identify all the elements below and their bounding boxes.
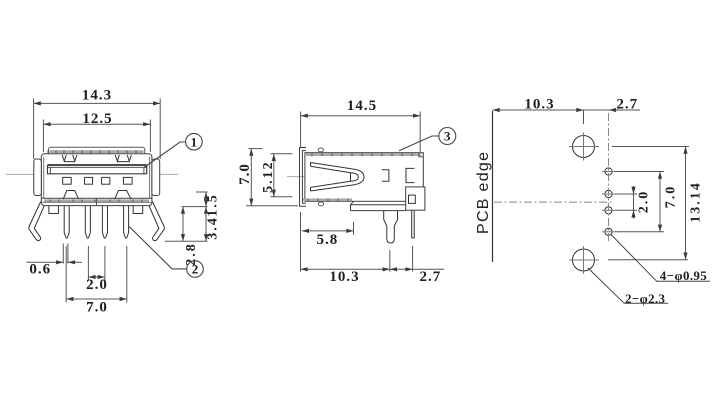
svg-text:2: 2: [192, 262, 199, 277]
svg-text:7.0: 7.0: [237, 163, 253, 185]
svg-text:5.8: 5.8: [317, 232, 339, 248]
svg-text:0.6: 0.6: [29, 262, 51, 278]
svg-text:10.3: 10.3: [329, 269, 359, 285]
svg-text:PCB edge: PCB edge: [475, 152, 492, 234]
svg-text:2.7: 2.7: [616, 97, 638, 113]
svg-text:1.5: 1.5: [206, 193, 221, 217]
svg-text:13.14: 13.14: [688, 181, 703, 223]
svg-text:5.12: 5.12: [261, 160, 276, 193]
svg-text:10.3: 10.3: [524, 97, 554, 113]
svg-text:14.3: 14.3: [82, 88, 112, 104]
svg-text:2.0: 2.0: [86, 277, 108, 293]
svg-text:4−φ0.95: 4−φ0.95: [660, 268, 708, 283]
svg-text:14.5: 14.5: [347, 98, 377, 114]
svg-text:7.0: 7.0: [86, 300, 108, 316]
svg-text:2.7: 2.7: [420, 269, 442, 285]
svg-text:7.0: 7.0: [664, 185, 679, 209]
svg-text:3: 3: [444, 129, 451, 144]
svg-text:2.0: 2.0: [637, 190, 652, 214]
svg-text:3.4: 3.4: [206, 216, 221, 240]
svg-text:12.5: 12.5: [82, 111, 112, 127]
svg-text:1: 1: [191, 134, 198, 149]
svg-text:2−φ2.3: 2−φ2.3: [625, 291, 666, 306]
